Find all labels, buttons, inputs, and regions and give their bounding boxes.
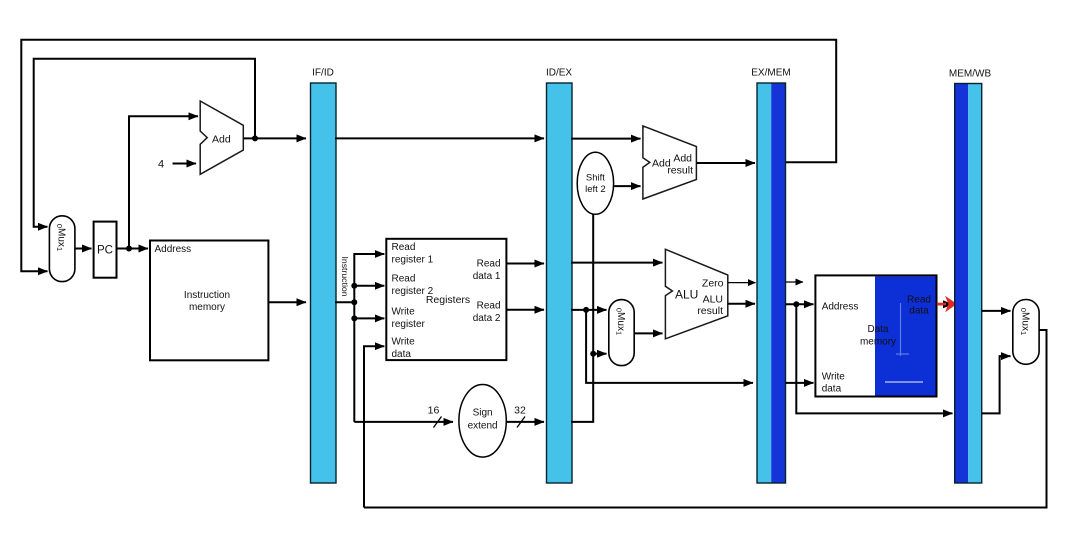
svg-text:Write: Write — [392, 307, 416, 318]
svg-text:Read: Read — [477, 301, 501, 312]
wire: store data to data memory Write data — [786, 382, 814, 384]
svg-text:Data: Data — [867, 324, 889, 335]
svg-text:Write: Write — [392, 337, 416, 348]
svg-text:Registers: Registers — [426, 294, 470, 306]
wire: PC+4 from IF/ID to ID/EX — [335, 137, 544, 139]
wire: inner loop Add output to Mux input 0 — [34, 59, 255, 227]
wire: instruction immediate to sign extend — [354, 421, 453, 423]
svg-text:32: 32 — [514, 405, 526, 417]
junction on Read data 2 — [583, 307, 589, 313]
junction at Add output — [252, 135, 258, 141]
wire: Add output to IF/ID — [243, 137, 306, 139]
wire: to Write register — [354, 317, 384, 319]
wire: memory read data to final mux input 0 — [982, 310, 1011, 312]
svg-text:data: data — [909, 306, 929, 317]
wire: Add result to EX/MEM — [696, 162, 755, 164]
svg-text:Zero: Zero — [702, 277, 724, 289]
svg-text:Sign: Sign — [473, 408, 493, 419]
wire: mux output to ALU — [634, 332, 662, 334]
shift left 2 — [577, 152, 613, 214]
mux M1 (PC source) — [49, 216, 75, 282]
register PC — [94, 222, 117, 278]
svg-text:Write: Write — [822, 372, 846, 383]
svg-text:Address: Address — [155, 244, 192, 255]
wire: Zero stub out of EX/MEM — [786, 281, 804, 283]
mux M2 (ALU source) — [609, 300, 634, 366]
svg-text:left 2: left 2 — [585, 184, 606, 195]
junction at PC output — [126, 246, 132, 252]
wire: instruction bus vertical — [353, 253, 355, 422]
wire: write-back loop to Write data — [364, 330, 1047, 508]
svg-text:Read: Read — [392, 242, 416, 253]
instruction memory box — [150, 241, 268, 361]
wire: Read data 2 to ID/EX — [506, 309, 544, 311]
adder Add (PC+4) — [200, 101, 243, 174]
svg-text:result: result — [667, 165, 693, 177]
pipeline register MEM/WB — [949, 69, 992, 484]
svg-text:Shift: Shift — [586, 173, 605, 184]
wire: PC+4 from ID/EX to Add result — [571, 138, 641, 140]
node: instruction bus junction (Read register 2 branch) — [351, 283, 357, 289]
ALU — [665, 249, 727, 338]
svg-text:0Mux1: 0Mux1 — [1019, 308, 1031, 335]
wire: mux to PC — [75, 248, 92, 250]
wire: immediate branch to ALU mux input 1 — [593, 353, 606, 355]
wire: write-back data to Write data — [364, 346, 384, 507]
svg-text:EX/MEM: EX/MEM — [751, 68, 790, 79]
svg-text:memory: memory — [189, 302, 225, 313]
svg-text:MEM/WB: MEM/WB — [949, 69, 992, 80]
adder Add result — [643, 126, 697, 199]
svg-text:data: data — [822, 384, 842, 395]
svg-text:result: result — [697, 305, 723, 317]
svg-text:Read: Read — [907, 295, 931, 306]
svg-text:Read: Read — [392, 274, 416, 285]
svg-text:data 1: data 1 — [473, 271, 501, 282]
svg-text:ID/EX: ID/EX — [546, 68, 572, 79]
wire: Read data 1 to ID/EX — [506, 263, 544, 265]
wire: ALU result to data memory Address — [786, 303, 814, 305]
svg-text:Read: Read — [477, 259, 501, 270]
wire: ALU result from MEM/WB to final mux input 1 — [982, 356, 1011, 413]
wire: Zero output to EX/MEM — [728, 282, 756, 284]
sign extend — [459, 385, 506, 458]
data memory box — [815, 275, 936, 396]
svg-text:0Mux1: 0Mux1 — [55, 224, 66, 251]
wire: ALU result bypass to MEM/WB — [796, 304, 952, 413]
wire: ALU result to EX/MEM — [728, 303, 755, 305]
svg-text:0Mux1: 0Mux1 — [615, 308, 627, 335]
wire: PC value up to Add — [129, 116, 198, 248]
svg-text:4: 4 — [158, 159, 164, 171]
wire: to Read register 1 — [354, 253, 384, 255]
svg-text:Instruction: Instruction — [184, 290, 230, 301]
wire: Read data 2 from ID/EX to ALU mux input 0 — [571, 309, 607, 311]
wire: PC to instruction memory — [117, 248, 149, 250]
svg-text:ALU: ALU — [703, 294, 723, 306]
pipeline register EX/MEM — [751, 68, 790, 484]
wire: sign extend output to ID/EX — [506, 421, 544, 423]
mux M3 (write-back select) — [1013, 300, 1039, 365]
node: instruction bus junction (IF/ID tap) — [351, 299, 357, 305]
pipeline register IF/ID — [311, 68, 337, 484]
wire: instruction memory to IF/ID — [268, 301, 306, 303]
wire: top outer feedback loop (EX/MEM branch target to Mux) — [21, 40, 836, 271]
svg-text:extend: extend — [468, 421, 498, 432]
wire: constant 4 into Add — [173, 163, 197, 165]
junction ALU result branch — [793, 301, 799, 307]
junction on immediate line — [590, 351, 596, 357]
pipeline register ID/EX — [546, 68, 572, 484]
svg-text:data 2: data 2 — [473, 313, 501, 324]
wire: Read data 2 down to store path — [586, 310, 753, 383]
registers box — [386, 239, 506, 360]
svg-text:Address: Address — [822, 302, 859, 313]
svg-text:ALU: ALU — [675, 288, 698, 302]
wire: immediate from ID/EX up to shift left 2 — [571, 214, 593, 422]
node: instruction bus junction (Write register branch) — [351, 315, 357, 321]
svg-text:Add: Add — [673, 153, 692, 165]
svg-text:register 1: register 1 — [392, 255, 434, 266]
wire: to Read register 2 — [354, 285, 384, 287]
wire: instruction bus stub from IF/ID — [335, 301, 354, 303]
svg-text:IF/ID: IF/ID — [312, 68, 334, 79]
wire: read data black arrow under red — [937, 303, 953, 305]
svg-text:PC: PC — [97, 245, 113, 257]
wire: shift left 2 output to Add result — [614, 185, 641, 187]
wire: Read data 1 from ID/EX to ALU — [571, 262, 663, 264]
svg-text:16: 16 — [428, 405, 440, 417]
svg-text:memory: memory — [860, 337, 896, 348]
svg-text:data: data — [392, 349, 412, 360]
svg-text:Instruction: Instruction — [340, 256, 350, 296]
red highlight arrow (Read data to MEM/WB) — [937, 296, 957, 312]
svg-text:Add: Add — [212, 133, 231, 145]
svg-text:register: register — [392, 319, 426, 330]
